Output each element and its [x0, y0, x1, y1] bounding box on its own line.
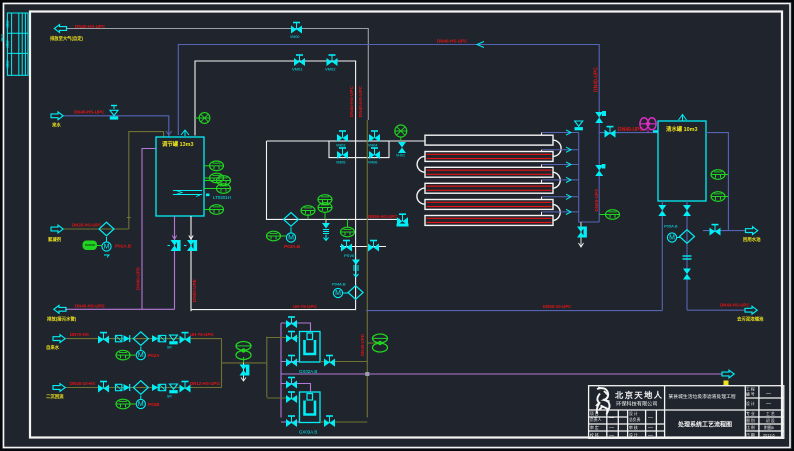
- svg-text:专 业: 专 业: [746, 411, 755, 416]
- hx right bend 3-4: [553, 172, 560, 188]
- wire: blue feed line: [64, 116, 169, 137]
- svg-text:DN40-HS-UPC: DN40-HS-UPC: [720, 303, 750, 308]
- valve on manifold top: [575, 121, 583, 130]
- instrument PI03: [301, 206, 315, 220]
- svg-text:图 别: 图 别: [746, 418, 755, 423]
- svg-text:P04A.B: P04A.B: [332, 282, 346, 287]
- svg-text:DN40-HS-UPC: DN40-HS-UPC: [437, 39, 468, 44]
- svg-text:设 计: 设 计: [629, 433, 638, 438]
- instrument LI01: [204, 161, 224, 171]
- svg-text:VM01: VM01: [292, 67, 303, 72]
- globe valve: [98, 382, 109, 393]
- svg-text:负责人: 负责人: [590, 417, 602, 422]
- control valve branch: [367, 334, 387, 352]
- valve VM01: [292, 55, 305, 72]
- hx left bend 4-5: [417, 188, 425, 204]
- svg-text:DN40-HS-UPC: DN40-HS-UPC: [349, 85, 354, 117]
- svg-text:UH-76-UPG: UH-76-UPG: [190, 332, 214, 337]
- svg-text:DN50-HS-UPC: DN50-HS-UPC: [368, 214, 398, 219]
- instrument PI on vent riser: [195, 113, 210, 124]
- valve outlet GX03: [324, 416, 335, 427]
- svg-text:PSV01: PSV01: [344, 253, 357, 258]
- instrument LI T02 b: [711, 192, 728, 202]
- square valve: [116, 384, 122, 390]
- svg-text:P03A.B: P03A.B: [284, 244, 301, 249]
- instrument pair TI03: [318, 195, 332, 220]
- svg-text:二沉回流: 二沉回流: [46, 393, 64, 400]
- hx tube 2: [425, 152, 553, 162]
- svg-text:某县城生活垃圾渗滤液处理工程: 某县城生活垃圾渗滤液处理工程: [669, 393, 736, 400]
- svg-text:DN40-UPC: DN40-UPC: [594, 67, 600, 92]
- globe valve out: [180, 333, 191, 344]
- svg-text:P02A: P02A: [148, 353, 160, 358]
- pump P03 diamond: [284, 213, 299, 227]
- wire: olive pump train P02B: [66, 387, 222, 389]
- manifold valve VM06: [368, 148, 380, 165]
- wire: purple to GX03 top: [281, 384, 311, 393]
- check valve: [124, 335, 130, 342]
- left margin sign-off table: [7, 13, 28, 75]
- arrow purple outlet: [54, 305, 66, 313]
- globe valve on vessel2 inlet: [605, 127, 616, 138]
- pump P01 diamond: [99, 222, 114, 236]
- svg-text:会签: 会签: [5, 59, 10, 67]
- company logo: [596, 388, 610, 415]
- filter tank GX03: [300, 392, 321, 423]
- manifold valve VM04: [368, 131, 380, 148]
- svg-text:设 计: 设 计: [629, 411, 638, 416]
- magenta butterfly instrument: [640, 118, 656, 133]
- wire: blue transfer header: [178, 45, 658, 136]
- wire: hx outlet stub 3: [542, 162, 579, 167]
- svg-text:DN40-HS-UPD: DN40-HS-UPD: [75, 304, 105, 309]
- instrument PI05: [599, 210, 619, 220]
- svg-text:工 艺: 工 艺: [766, 411, 775, 416]
- wire: olive inlet GX02: [267, 337, 300, 339]
- hx right bend 5-6: [553, 204, 560, 220]
- svg-text:DN40-HS-UPC: DN40-HS-UPC: [75, 24, 106, 29]
- sample point below: [240, 363, 250, 381]
- svg-text:设 计: 设 计: [746, 401, 755, 406]
- svg-text:去污泥浓缩池: 去污泥浓缩池: [737, 316, 764, 323]
- square valve out: [159, 384, 165, 390]
- hx tube 1: [425, 135, 553, 145]
- svg-text:初 设: 初 设: [766, 418, 775, 423]
- wire: olive outlet GX03: [320, 421, 367, 423]
- manifold valve VM05: [336, 148, 348, 165]
- svg-text:校 核: 校 核: [590, 433, 599, 438]
- wire: hx outlet stub 4: [542, 177, 579, 183]
- wire: blue bottom header: [366, 310, 662, 312]
- svg-text:工 程: 工 程: [746, 387, 755, 392]
- svg-text:VM04: VM04: [368, 144, 377, 148]
- svg-text:GX02A.B: GX02A.B: [299, 369, 317, 374]
- wire: olive connect trains: [221, 339, 223, 388]
- wire: blue outlet to arrow: [687, 309, 745, 311]
- valve on cross connect right: [368, 241, 379, 252]
- svg-text:会签: 会签: [5, 19, 10, 27]
- svg-text:日 期: 日 期: [746, 433, 755, 438]
- reducer tick at vessel2 inlet: [653, 130, 658, 132]
- svg-text:DN40-UPD: DN40-UPD: [136, 266, 141, 290]
- pump diamond P02B: [133, 381, 148, 395]
- wire: blue recirculation loop: [706, 133, 728, 231]
- svg-text:自来水: 自来水: [46, 344, 60, 351]
- relief valve PSV01: [344, 253, 360, 277]
- svg-text:编 号: 编 号: [746, 392, 755, 397]
- level weir inside vessel: [173, 191, 202, 195]
- instrument FI03: [341, 219, 355, 236]
- filter tank GX02: [300, 332, 321, 363]
- motor P02A: [136, 347, 145, 360]
- wire: cross connect: [340, 246, 386, 248]
- svg-text:UH-76-UPG: UH-76-UPG: [293, 304, 317, 309]
- vessel T02: [658, 121, 706, 201]
- wire: white drain: [190, 216, 192, 311]
- valve purple bottom GX03: [286, 416, 297, 427]
- wire: hx outlet manifold: [579, 133, 600, 223]
- strainer: [167, 384, 178, 399]
- square valve: [116, 335, 122, 341]
- check valve out: [152, 384, 158, 391]
- control valve on transfer: [236, 342, 251, 363]
- valve P05 suction: [683, 205, 691, 216]
- instrument LI T02 a: [711, 170, 728, 180]
- instrument LI03: [204, 176, 231, 186]
- vent arrow T02: [679, 115, 687, 122]
- svg-text:DN50-10-UPC: DN50-10-UPC: [543, 304, 572, 309]
- svg-text:DN50-UPE: DN50-UPE: [192, 279, 197, 302]
- arrow backwash outlet: [722, 370, 734, 378]
- valve purple top GX02: [286, 317, 297, 328]
- wire: purple bottom header: [65, 308, 175, 310]
- hx tube 4: [425, 183, 553, 193]
- pump P01 motor: [102, 237, 111, 258]
- valve under hx inlet: [396, 142, 406, 158]
- svg-text:—: —: [648, 415, 653, 421]
- svg-text:清水罐 10m3: 清水罐 10m3: [666, 125, 697, 133]
- wire: white filtrate loop: [267, 141, 401, 219]
- svg-text:LT0201H: LT0201H: [213, 195, 231, 200]
- hx left bend 2-3: [417, 156, 425, 172]
- instrument P02B: [116, 399, 136, 409]
- wire: purple drain: [174, 216, 176, 309]
- wire: olive pump train P02A: [66, 338, 222, 340]
- svg-text:DN40-HS-UPC: DN40-HS-UPC: [358, 85, 363, 117]
- flange below P05: [683, 256, 692, 259]
- wire: olive dosing line to vessel top: [129, 132, 164, 229]
- wire: hx outlet stub 1: [542, 130, 579, 135]
- svg-text:絮凝剂: 絮凝剂: [48, 236, 62, 243]
- globe valve out: [180, 382, 191, 393]
- svg-text:调节罐 13m3: 调节罐 13m3: [162, 140, 193, 148]
- svg-text:DN40-UPD: DN40-UPD: [360, 334, 365, 356]
- pump P05: [664, 224, 695, 244]
- svg-text:—: —: [609, 425, 614, 431]
- svg-text:—: —: [609, 433, 614, 439]
- junction dot: [365, 372, 369, 376]
- svg-text:DN40-HS-UPC: DN40-HS-UPC: [74, 110, 105, 115]
- svg-text:—: —: [609, 415, 614, 421]
- wire: gray vent header: [66, 29, 368, 121]
- wire: purple bottom GX02: [281, 361, 300, 363]
- globe valve: [98, 333, 109, 344]
- arrow outlet right: [745, 306, 757, 314]
- svg-text:SR: SR: [167, 346, 172, 350]
- instrument P02A: [116, 350, 136, 360]
- wire: blue T02 drain left: [661, 201, 663, 311]
- instrument at P01: [83, 241, 102, 251]
- wire: olive suction P01: [64, 228, 129, 230]
- svg-text:VM03: VM03: [336, 144, 345, 148]
- instrument LI02: [204, 173, 224, 183]
- wire: blue product line: [703, 230, 745, 232]
- svg-text:VM00: VM00: [290, 35, 299, 39]
- arrow outlet top-left: [54, 25, 66, 33]
- wire: white vent line vessel1: [195, 61, 356, 310]
- bypass manifold box: [329, 141, 389, 158]
- wire: hx outlet stub 2: [542, 147, 579, 152]
- svg-text:会签: 会签: [5, 39, 10, 47]
- svg-text:VM06: VM06: [368, 161, 377, 165]
- svg-text:排放(接污水管): 排放(接污水管): [47, 316, 77, 323]
- valve outlet GX02: [324, 356, 335, 367]
- arrow inlet P02B: [53, 384, 65, 392]
- svg-text:总负责: 总负责: [629, 417, 641, 422]
- hx right bend 1-2: [553, 140, 561, 156]
- svg-text:附图8: 附图8: [764, 425, 774, 430]
- wire: blue P05 suction: [686, 201, 688, 310]
- wire: hx outlet stub 5: [542, 194, 579, 199]
- valve T02 drain: [658, 205, 666, 216]
- svg-text:DN40-UPC: DN40-UPC: [618, 127, 643, 133]
- svg-text:比 例: 比 例: [746, 425, 755, 430]
- svg-text:DN70-HS: DN70-HS: [70, 332, 89, 337]
- svg-text:—: —: [766, 391, 771, 397]
- instrument LI04: [204, 184, 231, 194]
- vent arrow on vessel top: [181, 130, 189, 136]
- hx tube 5: [425, 200, 553, 210]
- svg-text:—: —: [648, 425, 653, 431]
- svg-text:VM02: VM02: [325, 67, 336, 72]
- svg-text:日期: 日期: [0, 34, 5, 42]
- valve on cross connect left: [341, 241, 352, 252]
- strainer: [167, 335, 178, 350]
- valve ZI on riser: [595, 164, 605, 176]
- svg-text:审 定: 审 定: [590, 425, 599, 430]
- wire: purple backwash riser: [280, 323, 282, 418]
- pump P04: [332, 282, 363, 300]
- arrow feed inlet: [51, 112, 63, 120]
- vessel T01: [156, 137, 204, 216]
- svg-text:环保科技有限公司: 环保科技有限公司: [616, 400, 658, 408]
- valve on white drain: [184, 236, 197, 252]
- square valve out: [159, 335, 165, 341]
- wire: olive concentrate riser: [366, 120, 368, 418]
- wire: olive outlet GX02: [320, 361, 367, 363]
- hx tube 6: [425, 216, 553, 226]
- motor P02B: [136, 396, 145, 409]
- valve product: [710, 225, 721, 236]
- valve on vent header: [290, 23, 302, 40]
- wire: purple to GX02 top: [281, 323, 311, 332]
- svg-text:SR: SR: [167, 395, 172, 399]
- valve purple bottom GX02: [286, 356, 297, 367]
- svg-text:DN65-UPX: DN65-UPX: [594, 188, 599, 212]
- strainer valve on feed: [110, 106, 118, 120]
- svg-text:DN12-HS-UPG: DN12-HS-UPG: [190, 381, 220, 386]
- pump diamond P02A: [133, 332, 148, 346]
- wire: olive inlet GX03: [267, 397, 300, 399]
- valve VM02: [325, 55, 338, 72]
- svg-text:GX03A.B: GX03A.B: [299, 430, 317, 435]
- wire: hx outlet stub 6: [542, 209, 579, 215]
- wire: olive to filter manifold: [222, 362, 267, 364]
- title block: [589, 386, 784, 439]
- arrow inlet P02A: [53, 335, 65, 343]
- svg-text:2013.6: 2013.6: [763, 434, 775, 438]
- valve inlet GX03: [286, 392, 297, 403]
- svg-text:DN40-10-HS: DN40-10-HS: [70, 381, 95, 386]
- green inline pump on white line: [395, 125, 407, 141]
- arrow product: [746, 227, 758, 235]
- valve purple top GX03: [286, 378, 297, 389]
- svg-text:处理系统工艺流程图: 处理系统工艺流程图: [677, 421, 732, 429]
- svg-text:DN25-HS-UPC: DN25-HS-UPC: [72, 223, 102, 228]
- svg-text:VH01: VH01: [396, 154, 405, 158]
- wire: purple bottom GX03: [281, 421, 300, 423]
- svg-text:VM05: VM05: [336, 161, 345, 165]
- svg-text:—: —: [766, 401, 771, 407]
- valve cluster on riser: [595, 112, 603, 123]
- flow tick: [477, 42, 484, 48]
- svg-text:项 目: 项 目: [590, 411, 599, 416]
- check valve: [124, 384, 130, 391]
- relief drain below loop: [322, 219, 330, 240]
- svg-text:回用水池: 回用水池: [743, 236, 761, 243]
- manifold drain valve: [577, 222, 587, 247]
- manifold valve VM03: [336, 131, 348, 148]
- pump P03 motor: [286, 227, 295, 242]
- wire: white bottom header: [191, 309, 356, 311]
- svg-text:P01A.B: P01A.B: [115, 244, 132, 249]
- arrow P01 feed: [51, 225, 63, 233]
- check valve out: [152, 335, 158, 342]
- svg-text:来水: 来水: [51, 122, 61, 129]
- valve inlet GX02: [286, 332, 297, 343]
- svg-text:北京天地人: 北京天地人: [615, 390, 663, 400]
- wire: olive filter manifold: [266, 337, 268, 398]
- svg-text:P02B: P02B: [148, 402, 160, 407]
- svg-text:审 核: 审 核: [629, 425, 638, 430]
- svg-text:排放至大气(自定): 排放至大气(自定): [50, 35, 84, 42]
- hx tube 3: [425, 167, 553, 177]
- instrument at P03: [267, 231, 287, 241]
- valve below P05: [683, 269, 691, 280]
- svg-text:—: —: [648, 433, 653, 439]
- wire: purple backwash header: [281, 373, 722, 375]
- purple inlet vessel left: [142, 149, 156, 310]
- instrument LI05: [204, 205, 224, 215]
- hx tube6 inlet globe valve: [397, 214, 409, 226]
- svg-text:P05A.B: P05A.B: [664, 224, 678, 229]
- valve on purple drain: [168, 236, 181, 252]
